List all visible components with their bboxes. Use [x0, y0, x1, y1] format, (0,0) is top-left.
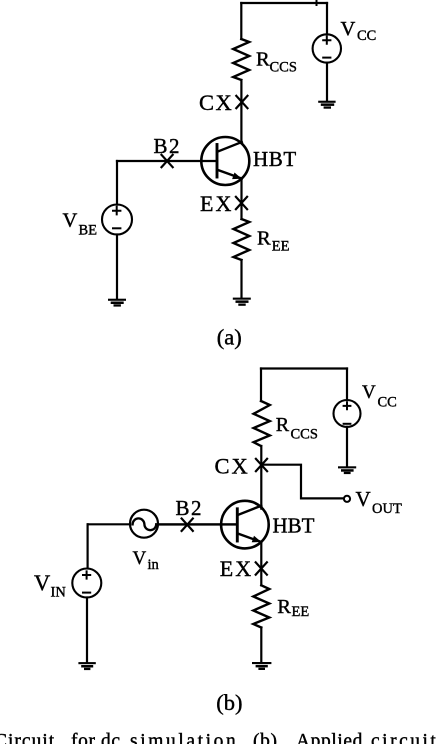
svg-text:B2: B2	[154, 134, 182, 158]
svg-text:CX: CX	[199, 90, 233, 115]
svg-text:BE: BE	[79, 222, 98, 238]
svg-text:circuit: circuit	[371, 731, 436, 744]
svg-text:V: V	[34, 570, 50, 595]
svg-text:(a): (a)	[217, 325, 242, 350]
svg-text:for: for	[71, 731, 96, 744]
svg-text:OUT: OUT	[372, 501, 402, 517]
svg-text:V: V	[362, 382, 376, 403]
svg-text:CX: CX	[215, 453, 250, 478]
svg-text:EX: EX	[200, 191, 233, 216]
svg-text:EE: EE	[272, 239, 290, 255]
svg-text:EE: EE	[292, 604, 310, 620]
svg-text:simulation.: simulation.	[130, 731, 246, 744]
svg-text:CC: CC	[357, 28, 376, 44]
svg-text:V: V	[133, 548, 147, 569]
svg-text:HBT: HBT	[273, 514, 315, 538]
svg-text:V: V	[356, 487, 371, 511]
svg-text:R: R	[276, 414, 290, 436]
svg-text:EX: EX	[220, 556, 253, 581]
svg-text:HBT: HBT	[253, 147, 297, 171]
svg-text:Circuit: Circuit	[0, 731, 55, 744]
svg-text:CCS: CCS	[270, 59, 297, 75]
svg-text:B2: B2	[176, 496, 204, 520]
svg-text:Applied: Applied	[296, 731, 363, 744]
svg-text:V: V	[63, 209, 78, 231]
svg-text:dc: dc	[101, 731, 121, 744]
svg-text:CC: CC	[378, 395, 397, 411]
svg-text:V: V	[341, 18, 356, 40]
svg-text:(b): (b)	[216, 690, 242, 715]
svg-text:(b): (b)	[253, 731, 278, 744]
svg-text:IN: IN	[51, 585, 67, 601]
svg-text:R: R	[257, 228, 271, 250]
svg-text:R: R	[277, 596, 291, 618]
svg-text:in: in	[148, 557, 160, 573]
svg-text:R: R	[256, 49, 270, 71]
svg-text:CCS: CCS	[291, 427, 318, 443]
